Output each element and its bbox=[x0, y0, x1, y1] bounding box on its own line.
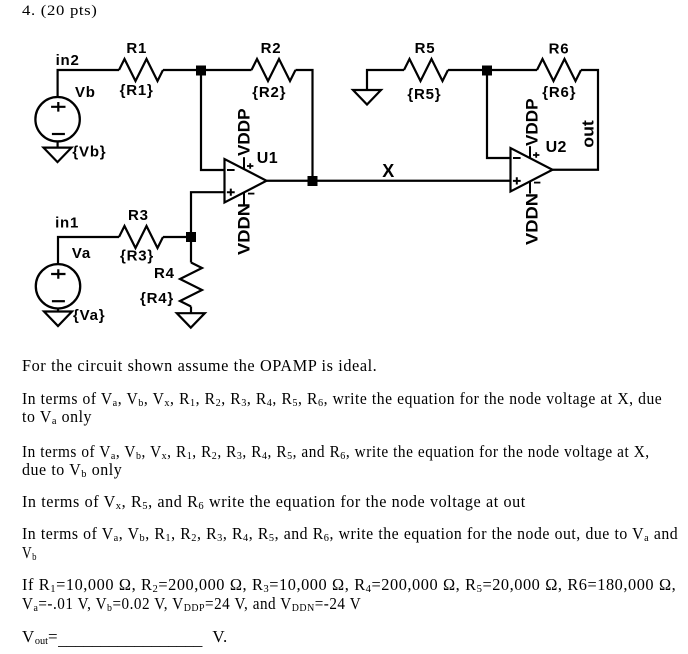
svg-text:{R4}: {R4} bbox=[140, 290, 174, 307]
resistor R4 bbox=[180, 263, 202, 307]
wire R5 to R6 bbox=[448, 69, 537, 71]
wire junction to U1 inverting input bbox=[201, 70, 225, 170]
wire node X (U1 output to U2 non-inverting input) bbox=[267, 180, 511, 182]
svg-text:R1: R1 bbox=[126, 40, 147, 57]
svg-text:X: X bbox=[382, 161, 394, 181]
svg-text:{Vb}: {Vb} bbox=[72, 143, 106, 160]
circuit schematic bbox=[0, 0, 688, 340]
svg-text:R5: R5 bbox=[415, 40, 436, 57]
svg-text:R2: R2 bbox=[261, 40, 282, 57]
svg-text:R3: R3 bbox=[128, 207, 149, 224]
svg-text:VDDN: VDDN bbox=[235, 203, 254, 255]
resistor R2 bbox=[252, 59, 296, 81]
resistor R3 bbox=[119, 226, 163, 248]
wire R4 to ground bbox=[190, 307, 192, 314]
wire ground to R5 bbox=[367, 70, 404, 90]
svg-text:R6: R6 bbox=[549, 40, 570, 57]
svg-text:VDDN: VDDN bbox=[523, 193, 542, 245]
junction U1 output bbox=[308, 176, 318, 186]
svg-text:U1: U1 bbox=[257, 150, 278, 167]
wire R6 to U2 output (out net) bbox=[553, 70, 599, 170]
wire R2 to U1 output bbox=[296, 70, 313, 181]
svg-text:{R5}: {R5} bbox=[407, 86, 441, 103]
svg-text:Va: Va bbox=[72, 245, 91, 262]
ground (Va) bbox=[44, 309, 72, 327]
svg-text:{Va}: {Va} bbox=[73, 307, 105, 324]
wire junction to U1 non-inverting input and R4 bbox=[191, 192, 225, 262]
junction R3/R4 node bbox=[186, 232, 196, 242]
svg-text:out: out bbox=[578, 120, 597, 148]
resistor R5 bbox=[404, 59, 448, 81]
svg-text:in1: in1 bbox=[55, 215, 79, 232]
svg-text:{R2}: {R2} bbox=[252, 84, 286, 101]
voltage source Vb bbox=[35, 97, 79, 141]
svg-text:VDDP: VDDP bbox=[523, 99, 542, 147]
wire in1 net bbox=[58, 237, 119, 264]
wire in2 net bbox=[58, 70, 119, 97]
ground (Vb) bbox=[44, 141, 72, 162]
voltage source Va bbox=[36, 264, 80, 308]
svg-text:U2: U2 bbox=[546, 139, 567, 156]
ground (R5 input) bbox=[353, 90, 381, 105]
title bbox=[22, 2, 98, 20]
resistor R6 bbox=[537, 59, 581, 81]
wire R1 to R2 bbox=[163, 69, 252, 71]
wire junction to U2 inverting input bbox=[487, 70, 511, 158]
svg-text:in2: in2 bbox=[56, 52, 80, 69]
resistor R1 bbox=[119, 59, 163, 81]
svg-text:{R6}: {R6} bbox=[542, 84, 576, 101]
svg-text:VDDP: VDDP bbox=[235, 109, 254, 157]
ground (R4) bbox=[177, 313, 205, 328]
op-amp U2 bbox=[511, 146, 553, 193]
wire R3 to junction bbox=[163, 236, 191, 238]
junction R5/R6 node bbox=[482, 66, 492, 76]
svg-text:{R3}: {R3} bbox=[120, 248, 154, 265]
svg-text:Vb: Vb bbox=[75, 84, 96, 101]
op-amp U1 bbox=[225, 157, 267, 204]
junction R1/R2 node bbox=[196, 66, 206, 76]
svg-text:R4: R4 bbox=[154, 265, 175, 282]
svg-text:{R1}: {R1} bbox=[120, 82, 154, 99]
